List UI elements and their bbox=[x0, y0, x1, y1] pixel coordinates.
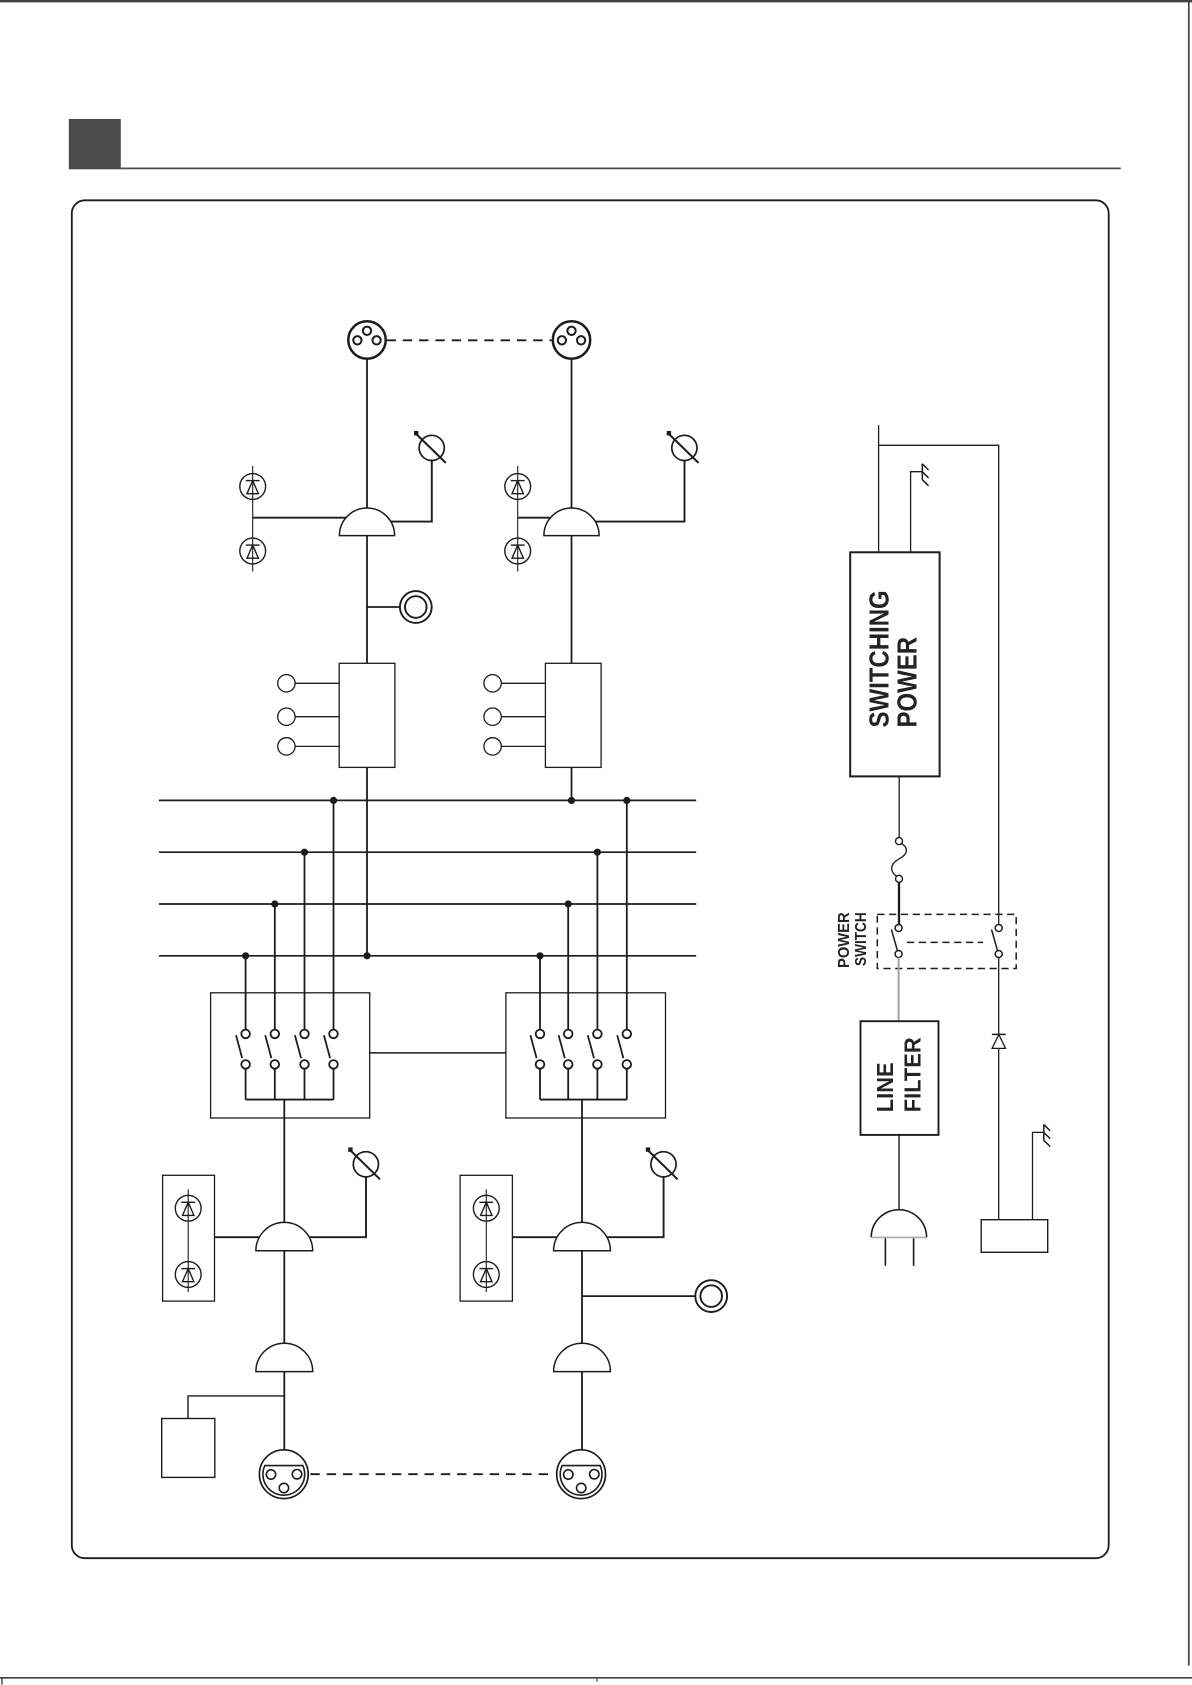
wire: ch1 main down to block A1 bbox=[366, 536, 368, 664]
switch SW2-4 bbox=[617, 1030, 631, 1100]
junction dot SW2p4 bbox=[623, 797, 630, 804]
pin circle A1-b bbox=[278, 708, 340, 725]
wire: LED chain ch2 lower bbox=[485, 1189, 487, 1292]
bus wire 3 bbox=[159, 903, 696, 905]
wire: gray line S1 to line filter bbox=[898, 958, 900, 1022]
terminal block TB1 bbox=[162, 1419, 215, 1478]
junction dot SW2p2 bbox=[565, 900, 572, 907]
switch SW1-2 bbox=[265, 1030, 279, 1100]
pot VR1 bbox=[414, 431, 446, 463]
wire: bus tap to SW2 pin3 bbox=[596, 852, 598, 1029]
phono jack P1 bbox=[400, 591, 432, 623]
wire: link between SW1 and SW2 bbox=[370, 1052, 506, 1054]
wire: U3 to output buffer U5 bbox=[283, 1251, 285, 1371]
pin circle A1-c bbox=[278, 738, 340, 755]
wire: switching power to chassis ground bbox=[911, 472, 923, 553]
switch S1 bbox=[891, 925, 902, 958]
wire: XLR1 stem to buffer U1 bbox=[366, 359, 368, 535]
LED D3 bbox=[505, 474, 531, 500]
wire: XLR2 stem to buffer U2 bbox=[571, 359, 573, 535]
switch matrix box SW1 bbox=[211, 993, 370, 1118]
junction dot ch2-bus1 bbox=[568, 797, 575, 804]
wire: switch coupling dashed bbox=[907, 941, 983, 943]
wire: LED chain ch2 bbox=[517, 466, 519, 572]
wire: LED chain ch1 bbox=[252, 466, 254, 572]
buffer U5 bbox=[256, 1343, 313, 1371]
wire: U5 to output XLR J3 bbox=[283, 1372, 285, 1450]
wire: U4 to output buffer U6 bbox=[581, 1251, 583, 1371]
wire: bus tap to SW2 pin1 bbox=[539, 956, 541, 1030]
junction dot SW1p3 bbox=[301, 849, 308, 856]
wire: A1 output to bus line 4 bbox=[366, 767, 368, 955]
block A2 gain stage bbox=[545, 663, 601, 767]
LED block rect ch1 bbox=[163, 1175, 215, 1301]
fuse F1 bbox=[892, 838, 907, 883]
power switch dashed enclosure bbox=[877, 914, 1016, 968]
buffer U1 bbox=[339, 508, 394, 536]
chassis ground G2 bbox=[1044, 1124, 1050, 1146]
AC plug PL1 bbox=[871, 1210, 926, 1266]
junction dot SW1p1 bbox=[242, 952, 249, 959]
wire: dashed link between output XLR jacks bbox=[310, 1473, 554, 1475]
switch SW1-1 bbox=[236, 1030, 250, 1100]
wire: bus tap to SW1 pin3 bbox=[304, 852, 306, 1029]
buffer U6 bbox=[554, 1343, 611, 1371]
wire: buffer U2 output to pot VR2 bbox=[580, 460, 685, 522]
wire: LED chain ch1 lower bbox=[187, 1189, 189, 1292]
header rule bbox=[121, 167, 1121, 169]
pin circle A2-c bbox=[484, 738, 546, 755]
switch SW2-1 bbox=[530, 1030, 544, 1100]
wire: SW2 out to monitor buffer U4 bbox=[581, 1100, 583, 1250]
svg-text:LINE: LINE bbox=[873, 1062, 899, 1112]
wire: bus tap to SW1 pin2 bbox=[274, 904, 276, 1030]
LED D6 bbox=[175, 1262, 201, 1288]
wire: ch2 input to buffer U2 bbox=[518, 517, 562, 519]
wire: SW1 common bar bbox=[246, 1099, 334, 1101]
wire: mains line up from switching power bbox=[878, 425, 880, 552]
bus wire 1 bbox=[159, 799, 696, 801]
pin circle A2-b bbox=[484, 708, 546, 725]
phono jack P2 bbox=[695, 1280, 727, 1312]
wire: LED block to buffer U4 bbox=[512, 1236, 572, 1238]
wire: diode to chassis block bbox=[998, 1048, 1000, 1219]
wire: branch to terminal block TB1 bbox=[188, 1396, 284, 1419]
LED D2 bbox=[240, 538, 266, 564]
wire: switching power to fuse F1 bbox=[898, 776, 900, 837]
wire: buffer U4 output to pot VR4 bbox=[590, 1176, 664, 1237]
LED D8 bbox=[473, 1262, 499, 1288]
svg-text:POWER: POWER bbox=[836, 912, 853, 968]
switch SW2-2 bbox=[559, 1030, 573, 1100]
wire: A2 output to bus line 1 bbox=[571, 767, 573, 800]
wire: bus tap to SW2 pin2 bbox=[567, 904, 569, 1030]
chassis block bbox=[981, 1220, 1047, 1253]
connector J1 input XLR male bbox=[348, 321, 385, 358]
wire: bus tap to SW1 pin4 bbox=[333, 800, 335, 1029]
buffer U4 bbox=[554, 1222, 611, 1250]
chassis ground G1 bbox=[922, 464, 928, 486]
wire: tap to phono jack P2 bbox=[582, 1295, 695, 1297]
diagram frame bbox=[72, 200, 1109, 1558]
wire: SW2 common bar bbox=[540, 1099, 627, 1101]
buffer U2 bbox=[544, 508, 599, 536]
switch matrix box SW2 bbox=[506, 993, 666, 1118]
junction dot SW1p4 bbox=[330, 797, 337, 804]
switch SW1-4 bbox=[324, 1030, 338, 1100]
wire: bus tap to SW2 pin4 bbox=[626, 800, 628, 1029]
block LINE FILTER bbox=[861, 1021, 939, 1135]
pot VR3 bbox=[348, 1147, 380, 1179]
junction dot SW2p3 bbox=[594, 849, 601, 856]
pin circle A2-a bbox=[484, 675, 546, 692]
LED D7 bbox=[473, 1195, 499, 1221]
page bottom border bbox=[0, 1678, 1192, 1685]
wire: SW1 out to monitor buffer U3 bbox=[283, 1100, 285, 1250]
block A1 gain stage bbox=[339, 663, 395, 767]
bus wire 2 bbox=[159, 851, 696, 853]
svg-text:SWITCH: SWITCH bbox=[853, 912, 870, 966]
wire: ch2 main down to block A2 bbox=[571, 536, 573, 664]
wire: buffer U1 output to pot VR1 bbox=[376, 460, 432, 522]
LED block rect ch2 bbox=[460, 1175, 512, 1301]
LED D4 bbox=[505, 538, 531, 564]
junction dot SW2p1 bbox=[536, 952, 543, 959]
wire: tap to phono jack P1 bbox=[367, 606, 400, 608]
wire: S2 to surge diode bbox=[998, 958, 1000, 1035]
wire: U6 to output XLR J4 bbox=[581, 1372, 583, 1450]
svg-text:FILTER: FILTER bbox=[900, 1037, 926, 1112]
wire: chassis block to ground G2 bbox=[1033, 1132, 1044, 1219]
LED D5 bbox=[175, 1195, 201, 1221]
connector J2 input XLR male bbox=[553, 321, 590, 358]
pot VR4 bbox=[646, 1147, 678, 1179]
connector J3 output XLR female bbox=[259, 1450, 308, 1499]
block SWITCHING POWER bbox=[850, 552, 939, 776]
buffer U3 bbox=[256, 1222, 313, 1250]
pot VR2 bbox=[667, 431, 699, 463]
svg-text:POWER: POWER bbox=[893, 637, 923, 728]
switch S2 bbox=[992, 925, 1003, 958]
svg-text:SWITCHING: SWITCHING bbox=[865, 590, 895, 727]
wire: bus tap to SW1 pin1 bbox=[245, 956, 247, 1030]
wire: fuse to power switch S1 bbox=[898, 882, 900, 924]
wire: dashed link between input XLR jacks bbox=[387, 339, 552, 341]
switch SW1-3 bbox=[295, 1030, 309, 1100]
bus wire 4 bbox=[159, 955, 696, 957]
LED D1 bbox=[240, 474, 266, 500]
header square bbox=[69, 119, 121, 169]
junction dot ch1-bus4 bbox=[363, 952, 370, 959]
wire: buffer U3 output to pot VR3 bbox=[293, 1176, 366, 1237]
wire: line filter to AC plug bbox=[898, 1135, 900, 1210]
switch SW2-3 bbox=[588, 1030, 602, 1100]
connector J4 output XLR female bbox=[557, 1450, 606, 1499]
wire: ch1 input to buffer U1 bbox=[253, 517, 358, 519]
page top border bbox=[0, 0, 1192, 2]
pin circle A1-a bbox=[278, 675, 340, 692]
junction dot SW1p2 bbox=[271, 900, 278, 907]
wire: mains line across and down to power switch S2 bbox=[879, 445, 999, 924]
wire: LED block to buffer U3 bbox=[215, 1236, 276, 1238]
diode D9 bbox=[992, 1034, 1006, 1048]
page right border bbox=[1188, 0, 1190, 1666]
